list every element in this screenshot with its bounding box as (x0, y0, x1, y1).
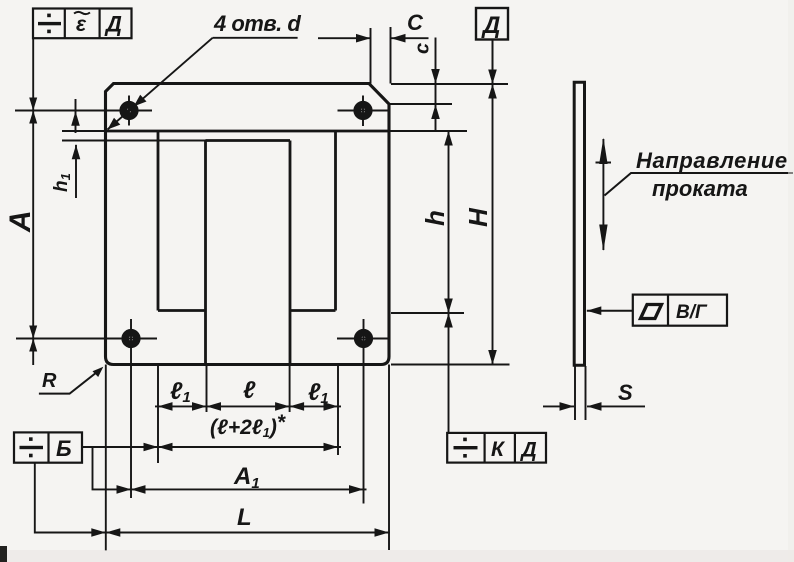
dimension C line segments (213, 37, 298, 39)
dimension L line and drop (35, 463, 390, 533)
arrow C right (391, 34, 406, 43)
arrowheads (29, 34, 607, 537)
scan border tint bottom (0, 550, 794, 562)
svg-text:Б: Б (56, 436, 72, 461)
R leader (39, 369, 102, 394)
svg-text:В/Г: В/Г (676, 302, 708, 323)
yoke cut line right extension (389, 130, 467, 132)
D box top-right (476, 8, 508, 40)
arrow R leader (93, 367, 104, 377)
svg-text:К: К (491, 438, 506, 461)
4 holes leader (108, 38, 213, 130)
left window left edge (157, 131, 160, 311)
hole bottom-left (125, 333, 137, 345)
svg-text:H: H (463, 207, 493, 227)
arrows h dimension (444, 131, 453, 146)
tongue left edge (204, 141, 207, 365)
dimension H vertical line (492, 40, 494, 365)
arrows S (560, 402, 575, 411)
extension window bottom right (391, 312, 464, 314)
arrows L (91, 528, 106, 537)
left window bottom (158, 309, 206, 312)
svg-text:L: L (237, 504, 252, 531)
extension chamfer top vertical (370, 28, 372, 84)
extension plate bottom right (391, 364, 510, 366)
dimension (l+2l1) line (82, 446, 341, 448)
svg-text:Д: Д (104, 12, 122, 37)
plate outline (106, 84, 390, 365)
dimension h1 lines (75, 99, 77, 133)
svg-text:ℓ: ℓ (243, 377, 256, 404)
dimension l line (155, 405, 341, 407)
arrows A dimension (29, 98, 37, 111)
svg-text:ε: ε (76, 13, 87, 36)
dimension c vertical line (435, 38, 437, 132)
svg-text:(ℓ+2ℓ1)*: (ℓ+2ℓ1)* (210, 411, 286, 440)
flatness frame arrow (587, 310, 633, 312)
arrows h1 (71, 111, 80, 126)
svg-text:Направление: Направление (636, 148, 788, 173)
side view plate (574, 82, 584, 365)
svg-text:A: A (4, 210, 37, 233)
extension lines below plate (157, 365, 159, 464)
tolerance frame K bottom-right (447, 433, 546, 463)
arrow flatness frame (587, 306, 602, 315)
tongue top left extension (62, 140, 206, 142)
tongue right edge (289, 141, 292, 365)
tolerance frame top-left (33, 9, 132, 39)
svg-text:S: S (618, 380, 633, 405)
arrow C left (356, 34, 371, 43)
svg-text:C: C (407, 10, 424, 35)
rolling direction leader (605, 173, 794, 196)
D box leader (492, 40, 494, 85)
hole top-left (123, 105, 135, 117)
center line bottom holes vertical + extensions to A1 (130, 319, 132, 498)
extension top edge right (391, 83, 508, 85)
scan border tint right (788, 0, 794, 562)
rolling direction arrowheads (599, 138, 607, 164)
extension right edge up (390, 27, 392, 84)
extension chamfer bottom right (389, 103, 452, 105)
svg-text:Д: Д (520, 439, 537, 462)
rolling direction tick (596, 162, 612, 164)
svg-text:проката: проката (652, 176, 748, 201)
arrows (l+2l1) (144, 443, 159, 452)
dimension S line (543, 405, 574, 407)
arrows c dimension (431, 69, 440, 84)
svg-text:4 отв. d: 4 отв. d (213, 11, 301, 36)
flatness frame (633, 295, 727, 326)
yoke cut line left extension (62, 130, 106, 132)
rolling direction arrow shaft (602, 139, 604, 250)
dimension A line (32, 38, 34, 365)
yoke cut line y=131 (106, 130, 390, 133)
svg-text:c: c (412, 43, 434, 54)
svg-text:R: R (42, 370, 57, 392)
right window bottom (290, 309, 336, 312)
right window right edge (334, 131, 337, 311)
tolerance frame B bottom-left (14, 432, 82, 462)
center line top holes horizontal (15, 110, 152, 112)
arrows H dimension and D leader (488, 70, 497, 85)
center line top holes vertical (128, 96, 130, 126)
svg-text:h: h (420, 210, 450, 226)
parallelogram symbol (641, 305, 662, 319)
div symbol cell1 (38, 14, 61, 34)
dimension A1 line and drop (93, 447, 367, 489)
svg-text:Д: Д (481, 12, 500, 39)
tongue top line y=140.5 (206, 139, 291, 142)
hole top-right (357, 105, 369, 117)
center line bottom holes horizontal (16, 338, 157, 340)
hole bottom-right (358, 333, 370, 345)
arrowheads 4 holes leader (134, 95, 147, 107)
dimension h vertical line (448, 131, 450, 433)
scan corner artifact (0, 546, 7, 562)
arrows l1 l l1 (158, 402, 173, 411)
side view S extension lines (574, 366, 576, 420)
arrows A1 (117, 485, 132, 494)
